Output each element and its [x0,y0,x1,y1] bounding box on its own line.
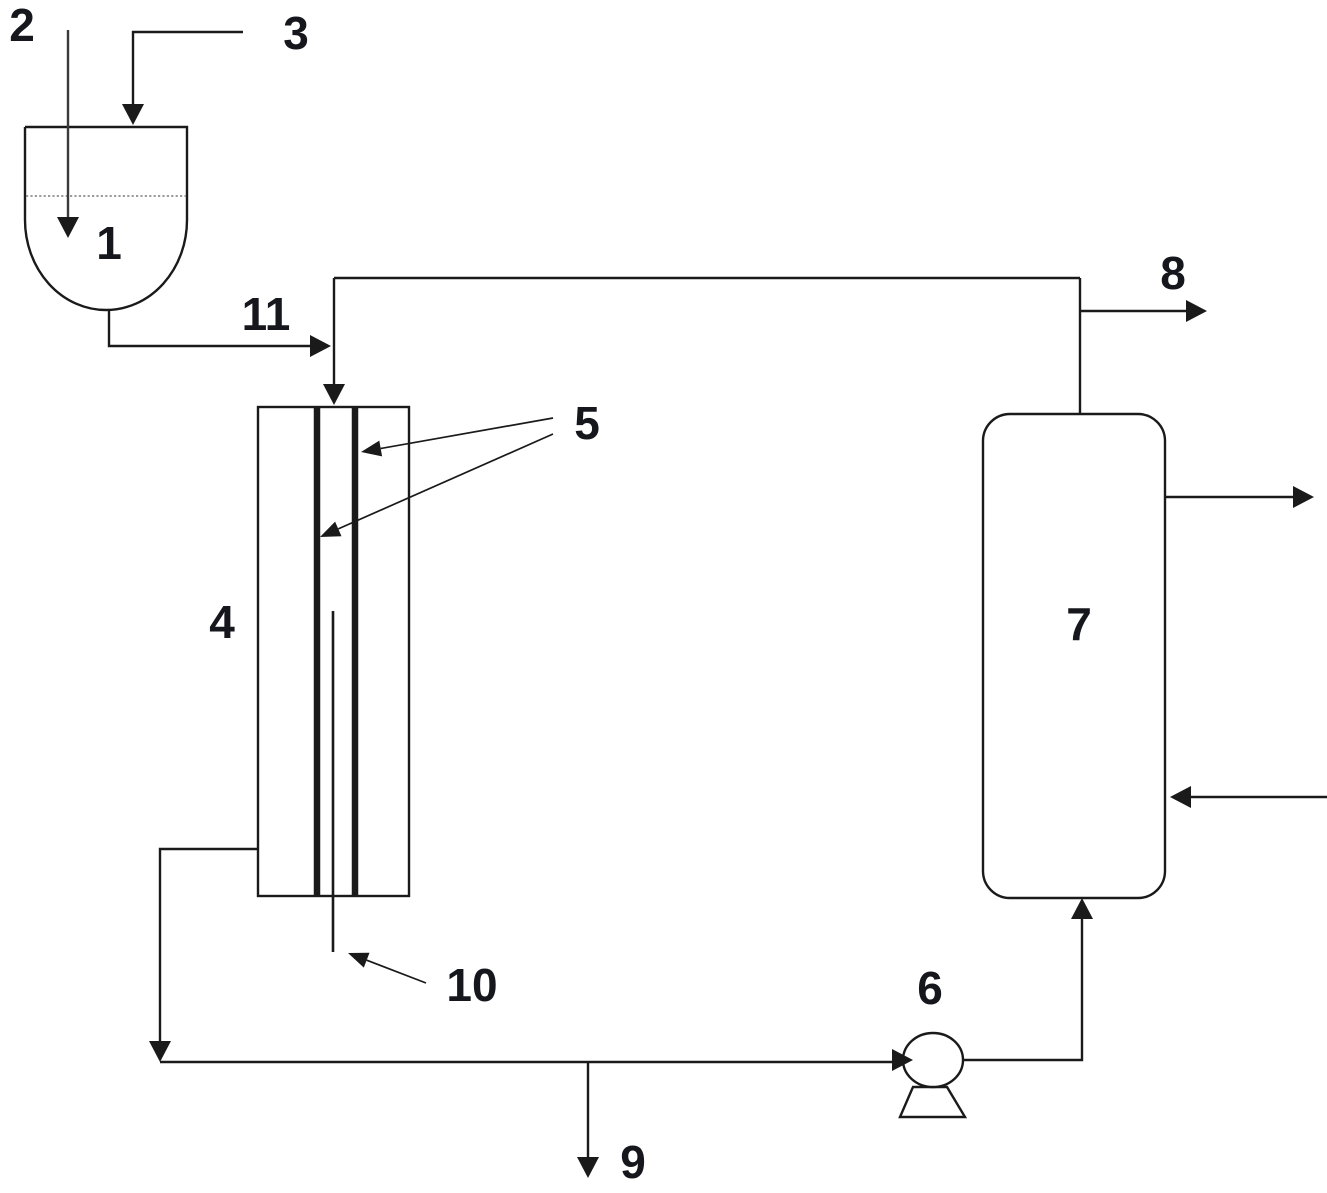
wire stream 8 [1080,310,1190,312]
wire vessel 7 side inlet [1188,796,1327,798]
svg-text:1: 1 [96,217,122,269]
svg-text:6: 6 [917,962,943,1014]
svg-text:5: 5 [574,397,600,449]
arrowhead down at bottom corner [149,1041,171,1062]
arrowhead stream 11 [310,335,331,357]
liquid level in vessel 1 [26,195,186,197]
pointer from 5 to left membrane [338,434,553,529]
pump 6 body [903,1033,963,1087]
svg-text:10: 10 [446,959,497,1011]
membrane tube left 5 [314,407,321,896]
membrane module 4 [258,407,409,896]
arrowhead side inlet [1170,786,1191,808]
svg-text:3: 3 [283,7,309,59]
arrowhead into vessel 7 [1071,898,1093,919]
inner tube 10 [332,611,335,952]
wire vessel 7 side outlet [1165,496,1297,498]
arrowhead side outlet [1293,486,1314,508]
svg-text:11: 11 [242,288,291,340]
wire bottom header [160,1061,892,1063]
wire feed drop into module 4 [333,278,335,389]
arrowhead stream 8 [1186,300,1207,322]
svg-text:7: 7 [1066,598,1092,650]
wire module 4 outlet [160,849,258,1046]
svg-text:4: 4 [209,596,235,648]
wire vessel 7 top to recycle [1079,278,1081,414]
pump 6 base [900,1087,965,1117]
arrowhead into pump 6 [892,1049,913,1071]
wire stream 2 [67,30,69,222]
svg-text:2: 2 [9,0,35,51]
pointer from 10 to inner tube [367,960,426,983]
arrowhead stream 2 [57,217,79,238]
svg-text:8: 8 [1160,247,1186,299]
arrowhead stream 9 [577,1157,599,1178]
arrowhead into module 4 [323,384,345,405]
wire stream 11 from vessel 1 [109,309,313,346]
wire recycle line top [334,277,1080,279]
arrowhead stream 3 [122,104,144,125]
wire stream 3 [133,32,243,109]
vessel 7 [983,414,1165,898]
pointer from 5 to right membrane [381,418,553,449]
membrane tube right 5 [352,407,359,896]
svg-text:9: 9 [620,1136,646,1188]
vessel 1 [25,127,187,310]
wire pump outlet [963,915,1082,1060]
wire stream 9 [587,1062,589,1161]
